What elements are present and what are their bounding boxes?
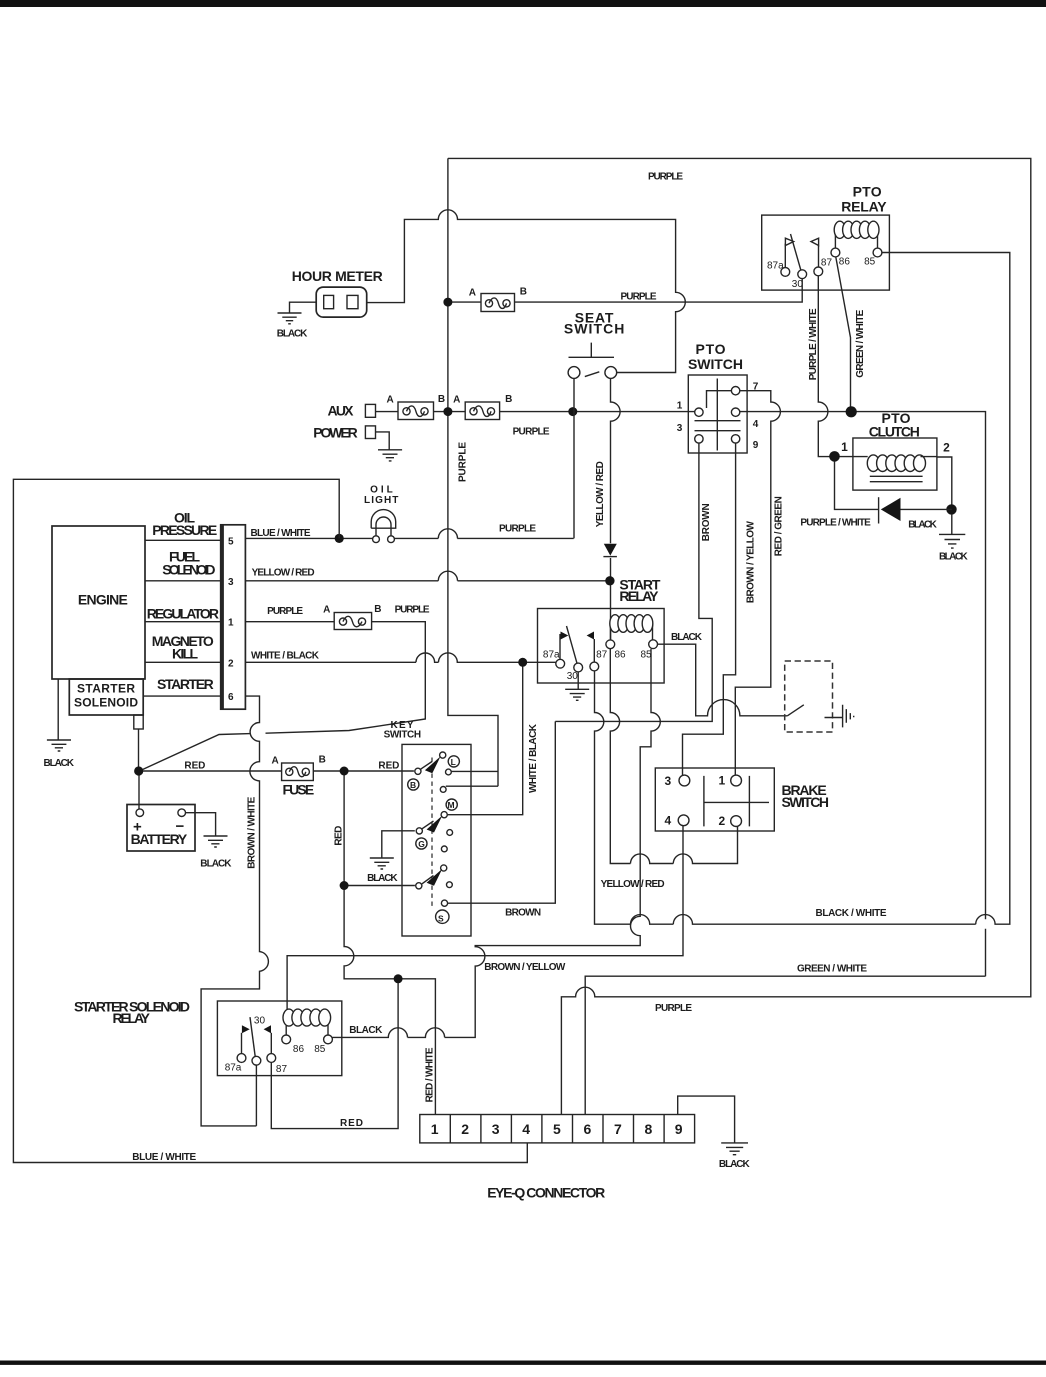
key switch arrow lower bbox=[441, 865, 447, 871]
wire start relay 85 down to solenoid relay BLACK bbox=[332, 649, 660, 1038]
svg-text:7: 7 bbox=[614, 1121, 622, 1137]
wire RED battery net bbox=[139, 771, 436, 1129]
brake switch S2 bbox=[655, 768, 829, 831]
svg-text:PURPLE: PURPLE bbox=[395, 604, 430, 615]
svg-text:GREEN / WHITE: GREEN / WHITE bbox=[797, 964, 867, 975]
svg-text:PTO: PTO bbox=[853, 184, 882, 200]
svg-text:FUSE: FUSE bbox=[283, 782, 315, 798]
wire start relay 87 descender to BLACK/WHITE run to PTO relay 85 bbox=[595, 253, 1010, 925]
pto relay pin 86 bbox=[831, 248, 840, 257]
svg-text:85: 85 bbox=[864, 257, 876, 268]
key switch terminal L bbox=[440, 752, 446, 758]
svg-text:BROWN / YELLOW: BROWN / YELLOW bbox=[484, 962, 566, 973]
svg-text:HOUR METER: HOUR METER bbox=[292, 268, 383, 284]
svg-text:BLACK: BLACK bbox=[200, 858, 232, 869]
svg-text:BLACK / WHITE: BLACK / WHITE bbox=[816, 908, 887, 919]
svg-text:87: 87 bbox=[596, 650, 608, 661]
wire engine ground left bbox=[57, 679, 59, 740]
svg-text:86: 86 bbox=[293, 1044, 305, 1055]
junction dot white/black bbox=[518, 658, 527, 667]
oil light L1 bbox=[364, 484, 398, 542]
svg-text:BLACK: BLACK bbox=[671, 632, 703, 643]
svg-text:SWITCH: SWITCH bbox=[564, 321, 625, 337]
svg-text:EYE-Q CONNECTOR: EYE-Q CONNECTOR bbox=[487, 1184, 605, 1200]
pto relay pin 30 + arm bbox=[798, 270, 807, 279]
svg-text:RED: RED bbox=[184, 761, 205, 772]
ground aux power bbox=[378, 450, 402, 461]
ground battery bbox=[200, 836, 232, 869]
svg-text:RELAY: RELAY bbox=[841, 199, 887, 215]
svg-text:WHITE / BLACK: WHITE / BLACK bbox=[251, 651, 320, 662]
svg-text:A: A bbox=[323, 605, 330, 616]
wire blue/white outer loop to EYE-Q pin 4 bbox=[13, 479, 527, 1162]
svg-text:PURPLE: PURPLE bbox=[621, 292, 657, 303]
wire PTO relay 87 purple/white to clutch bbox=[818, 276, 830, 457]
seat switch S1 bbox=[564, 309, 625, 378]
svg-text:PTO: PTO bbox=[696, 341, 726, 357]
pto clutch wires bbox=[839, 457, 952, 505]
PTO clutch bbox=[800, 410, 956, 534]
svg-text:2: 2 bbox=[943, 441, 950, 455]
svg-text:9: 9 bbox=[753, 440, 759, 451]
solenoid relay pin 87a bbox=[237, 1054, 246, 1063]
junction dot red/red-white bbox=[394, 974, 403, 983]
solenoid relay pin 86 bbox=[282, 1035, 291, 1044]
svg-text:87a: 87a bbox=[767, 260, 784, 271]
junction dot aux/main vertical bbox=[443, 407, 452, 416]
svg-text:7: 7 bbox=[753, 381, 759, 392]
svg-text:3: 3 bbox=[228, 577, 234, 588]
solenoid relay pin 85 bbox=[324, 1035, 333, 1044]
svg-text:5: 5 bbox=[228, 536, 234, 547]
junction dot red/keyswitch-lower bbox=[340, 881, 349, 890]
svg-text:GREEN / WHITE: GREEN / WHITE bbox=[855, 309, 866, 377]
svg-text:G: G bbox=[418, 839, 425, 849]
svg-text:3: 3 bbox=[665, 774, 672, 788]
solenoid relay pin 87 bbox=[267, 1054, 276, 1063]
svg-text:86: 86 bbox=[839, 257, 851, 268]
wire yellow/red pin3 line y580.8 bbox=[245, 571, 610, 581]
wire brown/white pin6 net bbox=[143, 696, 268, 1126]
svg-text:B: B bbox=[520, 286, 527, 297]
svg-text:5: 5 bbox=[553, 1121, 561, 1137]
svg-text:B: B bbox=[438, 394, 445, 405]
svg-text:3: 3 bbox=[492, 1121, 500, 1137]
svg-text:REGULATOR: REGULATOR bbox=[147, 606, 219, 622]
svg-text:2: 2 bbox=[228, 658, 234, 669]
svg-text:RED / GREEN: RED / GREEN bbox=[774, 496, 785, 556]
svg-text:PURPLE / WHITE: PURPLE / WHITE bbox=[800, 517, 871, 528]
svg-text:87: 87 bbox=[276, 1064, 288, 1075]
svg-text:1: 1 bbox=[841, 440, 848, 454]
junction dot blue/white bbox=[335, 534, 344, 543]
svg-text:SOLENOID: SOLENOID bbox=[74, 696, 138, 710]
svg-text:A: A bbox=[469, 287, 476, 298]
PTO switch S3 bbox=[677, 341, 759, 453]
svg-text:OIL: OIL bbox=[370, 484, 393, 495]
svg-text:M: M bbox=[448, 800, 455, 810]
wire purple hour-meter branch y302 bbox=[448, 279, 802, 303]
junction dot clutch pin 1 bbox=[829, 451, 840, 462]
svg-text:RED: RED bbox=[378, 761, 399, 772]
svg-text:BROWN: BROWN bbox=[505, 907, 541, 918]
svg-text:3: 3 bbox=[677, 423, 683, 434]
wire AUX purple line y411.6 bbox=[376, 412, 986, 1115]
svg-text:YELLOW / RED: YELLOW / RED bbox=[595, 461, 606, 527]
svg-text:87: 87 bbox=[821, 257, 833, 268]
svg-text:SOLENOID: SOLENOID bbox=[162, 562, 215, 578]
engine block bbox=[52, 526, 221, 679]
svg-text:BROWN / YELLOW: BROWN / YELLOW bbox=[745, 521, 756, 604]
svg-text:RED: RED bbox=[334, 826, 345, 846]
svg-text:4: 4 bbox=[665, 814, 672, 828]
PTO relay K2 bbox=[762, 184, 890, 291]
wire hour meter to seat switch top run y219 bbox=[367, 210, 686, 373]
svg-text:8: 8 bbox=[645, 1121, 653, 1137]
key switch arrow B-L bbox=[421, 762, 432, 770]
svg-text:KILL: KILL bbox=[172, 645, 198, 661]
svg-text:30: 30 bbox=[567, 671, 579, 682]
svg-text:BLACK: BLACK bbox=[367, 873, 398, 884]
key switch SW1 bbox=[384, 720, 471, 936]
circuit breaker CB3 (aux right) bbox=[453, 394, 512, 419]
svg-text:STARTER: STARTER bbox=[157, 676, 214, 692]
wire YELLOW/RED seat to start relay 86 with diode bbox=[611, 378, 621, 640]
ground EYE-Q bbox=[719, 1143, 751, 1170]
svg-text:4: 4 bbox=[753, 419, 759, 430]
ground engine bbox=[44, 740, 75, 769]
junction dot red/fuse-B bbox=[340, 767, 349, 776]
svg-text:RELAY: RELAY bbox=[619, 588, 659, 604]
key switch terminal S bbox=[441, 900, 447, 906]
svg-text:PURPLE: PURPLE bbox=[648, 172, 683, 183]
wire start relay 85 right BLACK to interlock bbox=[658, 644, 788, 716]
wire PTO switch 7 to brake 1 red/green bbox=[735, 391, 780, 776]
wire purple pin1/regulator to key switch diagonal bbox=[141, 622, 425, 771]
wire clutch ground bbox=[951, 514, 953, 534]
svg-text:STARTER: STARTER bbox=[77, 682, 135, 696]
pto clutch coil bbox=[867, 455, 879, 472]
svg-text:6: 6 bbox=[228, 692, 234, 703]
svg-text:BLACK: BLACK bbox=[908, 519, 937, 530]
svg-text:B: B bbox=[374, 604, 381, 615]
svg-text:CLUTCH: CLUTCH bbox=[869, 423, 920, 439]
key switch arrow G-M bbox=[422, 821, 434, 829]
svg-text:SWITCH: SWITCH bbox=[782, 794, 830, 810]
svg-text:ENGINE: ENGINE bbox=[78, 592, 128, 608]
pto switch internals bbox=[695, 379, 741, 451]
svg-text:PRESSURE: PRESSURE bbox=[152, 522, 217, 538]
svg-text:AUX: AUX bbox=[328, 403, 355, 419]
pto relay pin 87 bbox=[814, 267, 823, 276]
circuit breaker CB2 (aux left) bbox=[387, 394, 446, 419]
svg-text:SWITCH: SWITCH bbox=[384, 730, 422, 741]
svg-text:30: 30 bbox=[792, 279, 804, 290]
svg-text:A: A bbox=[272, 755, 279, 766]
junction dot purple/hour-meter bbox=[443, 298, 452, 307]
svg-text:RED / WHITE: RED / WHITE bbox=[425, 1047, 436, 1102]
svg-text:RED: RED bbox=[340, 1118, 363, 1129]
circuit breaker CB4 (regulator purple) bbox=[323, 604, 381, 630]
svg-text:BROWN / WHITE: BROWN / WHITE bbox=[247, 796, 258, 868]
svg-text:PURPLE: PURPLE bbox=[267, 606, 303, 617]
key switch terminal M bbox=[446, 799, 457, 810]
svg-text:85: 85 bbox=[314, 1044, 326, 1055]
svg-text:RELAY: RELAY bbox=[113, 1010, 151, 1026]
svg-text:BLACK: BLACK bbox=[44, 758, 75, 769]
svg-text:1: 1 bbox=[719, 773, 726, 787]
wire PTO relay 86 green/white diagonal bbox=[836, 257, 851, 407]
ground clutch bbox=[939, 534, 968, 562]
svg-text:SWITCH: SWITCH bbox=[688, 356, 743, 372]
svg-text:86: 86 bbox=[615, 650, 627, 661]
key switch middle stubs bbox=[447, 830, 453, 836]
ground interlock (rotated) bbox=[843, 705, 854, 728]
fuse F1 bbox=[272, 755, 326, 798]
circuit breaker CB1 (hour meter line) bbox=[469, 286, 527, 311]
diode D2 clutch bbox=[881, 498, 901, 521]
svg-text:1: 1 bbox=[228, 618, 234, 629]
svg-text:PURPLE: PURPLE bbox=[513, 427, 550, 438]
wire key switch G to ground bbox=[382, 831, 415, 858]
svg-text:6: 6 bbox=[584, 1121, 592, 1137]
junction dot aux/seat-left bbox=[568, 407, 577, 416]
start relay coil bbox=[610, 623, 612, 640]
svg-text:PURPLE: PURPLE bbox=[458, 442, 469, 482]
svg-text:S: S bbox=[438, 913, 444, 923]
start relay pin 87 bbox=[590, 662, 599, 671]
key switch contact stubs right of L bbox=[446, 769, 452, 775]
start relay K1 bbox=[538, 577, 665, 690]
svg-text:BLACK: BLACK bbox=[349, 1025, 383, 1036]
start relay pin 86 bbox=[606, 640, 615, 649]
diode D1 yellow/red bbox=[604, 544, 617, 556]
wire PURPLE main vertical bbox=[446, 158, 498, 786]
engine connector strip bbox=[221, 525, 246, 709]
svg-text:A: A bbox=[387, 395, 394, 406]
key switch terminal G bbox=[416, 828, 422, 834]
svg-text:1: 1 bbox=[431, 1121, 439, 1137]
svg-text:85: 85 bbox=[641, 650, 653, 661]
start relay pin 30 + arm bbox=[574, 663, 583, 672]
svg-text:YELLOW / RED: YELLOW / RED bbox=[252, 568, 315, 579]
svg-text:PURPLE: PURPLE bbox=[655, 1003, 692, 1014]
solenoid relay pin 30 + arm bbox=[252, 1056, 261, 1065]
svg-text:1: 1 bbox=[677, 401, 683, 412]
svg-text:BLUE / WHITE: BLUE / WHITE bbox=[251, 528, 311, 539]
svg-text:2: 2 bbox=[719, 814, 726, 828]
start relay pin 87a bbox=[556, 659, 565, 668]
svg-text:L: L bbox=[451, 757, 456, 767]
svg-text:9: 9 bbox=[675, 1121, 683, 1137]
ground start relay 30 bbox=[565, 689, 589, 700]
svg-text:PURPLE / WHITE: PURPLE / WHITE bbox=[808, 308, 819, 380]
pto relay coil bbox=[835, 228, 877, 248]
svg-text:BROWN: BROWN bbox=[701, 503, 712, 541]
svg-text:BLACK: BLACK bbox=[719, 1159, 751, 1170]
svg-text:LIGHT: LIGHT bbox=[364, 495, 398, 506]
svg-text:B: B bbox=[410, 780, 416, 790]
junction dot pto 1-4 line / green-white bbox=[846, 406, 857, 417]
key switch terminal B bbox=[415, 768, 421, 774]
pto relay pin 85 bbox=[873, 248, 882, 257]
pto relay pin 87a bbox=[781, 268, 790, 277]
starter solenoid bbox=[69, 679, 143, 767]
hour meter M1 bbox=[290, 268, 383, 317]
svg-text:A: A bbox=[453, 395, 460, 406]
wire purple/white clutch bottom bbox=[835, 461, 952, 509]
start relay pin 85 bbox=[649, 640, 658, 649]
svg-text:BLUE / WHITE: BLUE / WHITE bbox=[132, 1152, 196, 1163]
starter solenoid relay K3 bbox=[74, 999, 342, 1126]
ground hour meter bbox=[277, 313, 308, 339]
junction dot clutch pin 2 bbox=[946, 504, 956, 514]
wire EYE-Q pin 9 to ground bbox=[678, 1096, 735, 1143]
wire BROWN net: key switch S to PTO switch 3 bbox=[448, 443, 712, 903]
svg-text:BLACK: BLACK bbox=[939, 551, 968, 562]
wire start relay 86 descender to brake 2 bbox=[610, 649, 737, 864]
battery B1 bbox=[127, 805, 216, 852]
svg-text:4: 4 bbox=[522, 1121, 530, 1137]
svg-text:2: 2 bbox=[461, 1121, 469, 1137]
EYE-Q connector J1 bbox=[420, 1115, 695, 1201]
svg-text:87a: 87a bbox=[225, 1062, 242, 1073]
svg-text:30: 30 bbox=[254, 1016, 266, 1027]
page bottom rule bbox=[0, 1361, 1046, 1365]
svg-text:PURPLE: PURPLE bbox=[499, 524, 536, 535]
wire white/black pin2 line y662.3 bbox=[245, 653, 555, 815]
svg-text:BLACK: BLACK bbox=[277, 328, 308, 339]
solenoid relay coil bbox=[286, 1018, 328, 1036]
svg-text:B: B bbox=[319, 755, 326, 766]
wire seat-left vertical + blue/white horizontal bbox=[245, 378, 574, 538]
AUX POWER terminal bbox=[313, 403, 389, 450]
wire PURPLE top: from main riser to right border down to bottom purple into EYE-Q pin 5 bbox=[448, 158, 1031, 1114]
svg-text:POWER: POWER bbox=[313, 425, 358, 441]
wire BROWN/YELLOW net: PTO switch 9 to brake 3, brake 4 to solenoid relay coil bbox=[287, 443, 735, 1009]
interlock dashed box bbox=[785, 661, 843, 732]
svg-text:87a: 87a bbox=[543, 650, 560, 661]
svg-text:WHITE / BLACK: WHITE / BLACK bbox=[528, 723, 539, 793]
page top rule bbox=[0, 0, 1046, 7]
svg-text:YELLOW / RED: YELLOW / RED bbox=[601, 879, 665, 890]
ground key switch bbox=[367, 858, 398, 884]
junction dot start relay top bbox=[605, 576, 614, 585]
svg-text:BATTERY: BATTERY bbox=[131, 831, 188, 847]
junction dot battery/red bbox=[134, 766, 143, 775]
svg-text:B: B bbox=[505, 394, 512, 405]
